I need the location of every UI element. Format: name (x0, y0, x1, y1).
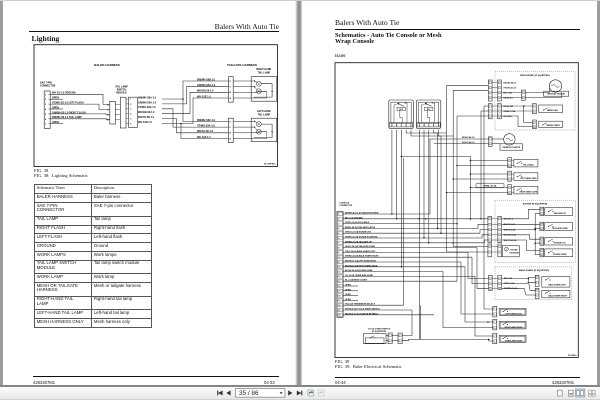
layout two-up-continuous icon (588, 390, 595, 396)
connector mesh A outside (488, 80, 492, 101)
svg-text:35 / 86: 35 / 86 (239, 390, 259, 397)
kicker group (if equipped) (495, 200, 576, 262)
connector LEFT-HAND EDGE (493, 306, 497, 317)
connector RIGHT-HAND GATE (508, 185, 512, 195)
connector mesh fan 2-pin (533, 104, 537, 114)
connector kicker K1 inside (498, 217, 502, 243)
wires to twine actuator (430, 139, 504, 214)
switch TAILGATE UP (545, 208, 573, 216)
wire S1D to upper A and lower A (162, 98, 229, 139)
connector TAILGATE UP (540, 207, 544, 215)
mesh fan switch (539, 105, 563, 113)
label TAIL LAMP SWITCH MODULE (115, 85, 128, 94)
switch KICKER OUT (545, 238, 573, 245)
wires mesh B links (492, 106, 497, 116)
wire S5A to upper C (162, 87, 229, 104)
connector mesh B inside (498, 104, 502, 119)
baler electrical schematic frame (335, 63, 578, 358)
kicker solenoid L1 (503, 246, 520, 257)
wires mesh A to actuator (501, 89, 561, 98)
toolbar page field (235, 389, 285, 398)
connector RIGHT-HAND EDGE (493, 319, 497, 330)
module output wire labels (138, 96, 157, 124)
mesh B wire labels (504, 105, 516, 118)
wires to edge switches (421, 106, 493, 341)
switch BALE SHAPE LEFT (542, 277, 570, 288)
label RIGHT-HAND TAIL LAMP (256, 68, 271, 74)
connector KICKER OUT (540, 237, 544, 245)
layout two-up icon (selected) (575, 389, 584, 397)
connector TAILGATE DOWN (540, 222, 544, 230)
twine actuator M2 (500, 134, 523, 151)
bale shape internal wiring (502, 278, 536, 296)
wires to full bale and gate switches (401, 156, 508, 244)
wires mesh B to fan/start (501, 105, 532, 126)
wires bale shape links (492, 279, 498, 289)
mesh wrap group (if equipped) (495, 71, 575, 130)
connector bale shape outside (488, 275, 492, 290)
connector cycle start A (388, 333, 392, 344)
bale shape group (if equipped) (495, 267, 572, 300)
switch FULL BALE (512, 159, 538, 167)
kicker wire labels (504, 219, 517, 242)
switch TAILGATE DOWN (545, 223, 573, 231)
tailgate upper wire labels (197, 78, 216, 98)
left-hand tail lamp assembly (233, 118, 277, 141)
wire BN/WH-S6 tail lamp to module pin D (50, 118, 110, 121)
connector SAE 7-PIN label (40, 82, 56, 88)
label CYCLE START SWITCH (368, 327, 391, 333)
connector twine actuator (488, 137, 492, 147)
switch LEFT-HAND GATE (512, 173, 538, 181)
kicker internal wiring (502, 209, 540, 254)
wire OPEN pin7 (50, 123, 63, 125)
connector mesh A inside (498, 80, 502, 101)
connector kicker K2 inside (498, 244, 502, 257)
wire OPEN pin4 (50, 108, 63, 110)
connector mesh actuator 2-pin (522, 90, 526, 100)
connector bale shape right 2-pin (535, 288, 539, 298)
wire YE/WH-S3 left flash to module pin C (50, 104, 110, 109)
wires kicker K2 links (492, 247, 498, 253)
connector bale shape left 2-pin (535, 275, 539, 286)
toolbar prev-page button (226, 390, 230, 395)
toolbar next-view button (disabled) (318, 390, 324, 396)
wire S9 to upper B (162, 92, 229, 113)
tailgate lower wire labels (197, 119, 216, 139)
mesh start switch (539, 121, 563, 127)
layout continuous icon (569, 390, 574, 396)
console connector J2 (337, 212, 343, 318)
connector C1 tailgate upper (229, 77, 234, 103)
connector bale shape inside (498, 275, 502, 289)
switch BALE SHAPE RIGHT (542, 290, 570, 298)
connector KICKER HOME (540, 248, 544, 256)
wires mesh A links (492, 83, 497, 98)
relay K2 (416, 100, 441, 128)
wire GN/WH-S5 right flash to module pin B (50, 113, 110, 116)
connector TWINE ARM HOME (493, 333, 497, 344)
wires cycle start (386, 305, 421, 341)
right-hand tail lamp assembly (233, 77, 277, 102)
switch LEFT-HAND EDGE (499, 308, 526, 315)
switch RIGHT-HAND GATE (512, 186, 538, 194)
connector kicker K2 outside (488, 244, 492, 257)
connector SAE 7-pin J1 (44, 91, 50, 128)
cycle start switch S1 (363, 334, 386, 344)
twine wire labels (462, 136, 475, 144)
switch KICKER HOME (545, 249, 573, 257)
connector C2 tailgate lower (229, 118, 234, 143)
switch TWINE ARM HOME (499, 335, 526, 342)
wire S6A to upper D and lower D (162, 81, 229, 121)
tail lamp switch module U1 (107, 97, 137, 128)
wires kicker K1 links (492, 219, 498, 240)
switch RIGHT-HAND EDGE (499, 321, 526, 329)
toolbar previous-view button (308, 390, 314, 396)
toolbar next-page button (288, 390, 292, 395)
console wire labels (345, 212, 380, 316)
bundle vertical wires (391, 86, 488, 340)
wire OPEN pin2 (50, 98, 63, 100)
layout single-page icon (558, 390, 563, 396)
toolbar last-page button (297, 391, 303, 396)
connector kicker K1 outside (488, 217, 492, 243)
connector cycle start B (398, 333, 402, 344)
connector mesh B outside (488, 104, 492, 119)
wire S8 to lower B (162, 119, 229, 133)
console row wires (343, 214, 488, 315)
wire label BN/BL-42-GA framed (476, 183, 504, 188)
wire S3A to lower C (162, 109, 229, 127)
mesh A wire labels (504, 81, 518, 99)
mesh actuator M1 (544, 80, 569, 96)
lighting schematic frame (34, 45, 278, 167)
relay K1 (389, 100, 414, 128)
connector LEFT-HAND GATE (508, 171, 512, 181)
SAE connector wire labels (52, 92, 86, 124)
wire WH-S1 ground to module pin A (50, 94, 110, 104)
label CONSOLE CONNECTOR (339, 202, 352, 207)
connector mesh start 2-pin (533, 120, 537, 129)
toolbar first-page button (217, 391, 222, 396)
bale shape wire labels (504, 277, 518, 290)
connector FULL BALE (508, 158, 512, 168)
label LEFT-HAND TAIL LAMP (257, 110, 271, 116)
